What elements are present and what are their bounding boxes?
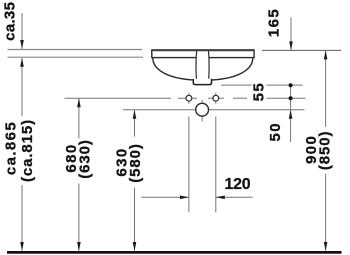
arrow down at floor for 900 bbox=[324, 242, 328, 251]
arrow up at line C for 630 bbox=[133, 110, 137, 119]
svg-text:(850): (850) bbox=[316, 131, 333, 171]
drain hole vertical centerline bbox=[201, 100, 203, 122]
basin drain foot fill bbox=[193, 79, 211, 85]
basin drain foot outline bbox=[193, 79, 211, 85]
left tap hole vertical centerline bbox=[188, 93, 190, 104]
basin rim top line over column bbox=[151, 49, 254, 51]
svg-text:55: 55 bbox=[251, 82, 268, 102]
dimension line 120 left bbox=[142, 196, 189, 198]
right tap hole crosshair horizontal bbox=[208, 97, 224, 99]
svg-text:(580): (580) bbox=[127, 143, 144, 183]
basin rim bbox=[152, 50, 254, 58]
arrow down at floor for 630 bbox=[133, 242, 137, 251]
arrow up at reference line for 900 bbox=[324, 50, 328, 59]
line A basin bottom level bbox=[221, 84, 252, 86]
svg-text:50: 50 bbox=[267, 122, 284, 142]
line C drain centerline bbox=[123, 109, 305, 111]
right tap hole vertical centerline bbox=[215, 93, 217, 104]
dimension line ca.865 bbox=[21, 58, 23, 116]
svg-text:(ca.815): (ca.815) bbox=[19, 119, 36, 182]
arrow down at floor for ca.865 bbox=[20, 242, 24, 251]
countertop bottom line left bbox=[8, 56, 144, 58]
basin overflow column fill bbox=[196, 51, 209, 80]
drain hole bbox=[196, 103, 209, 116]
dimension line 630 bbox=[134, 110, 136, 136]
basin overflow column right edge bbox=[208, 51, 211, 79]
reference top line right bbox=[262, 49, 341, 51]
dimension line 55-50 vertical bbox=[290, 85, 292, 109]
dot at line A bbox=[289, 83, 293, 87]
dimension line 165 bbox=[290, 17, 292, 49]
svg-text:120: 120 bbox=[225, 176, 251, 193]
countertop top line left bbox=[8, 49, 143, 51]
right tap hole bbox=[213, 95, 219, 101]
left tap hole crosshair horizontal bbox=[178, 97, 197, 99]
arrow up at line C for 50 bbox=[289, 110, 293, 119]
arrow right at left extension bbox=[180, 196, 189, 200]
dimension line 120 right bbox=[216, 196, 252, 198]
arrow up at line B for 680 bbox=[77, 98, 81, 107]
extension line left for 120 bbox=[188, 117, 190, 213]
arrow down at reference line for 165 bbox=[289, 41, 293, 50]
arrow down at floor for 680 bbox=[77, 242, 81, 251]
line B tap hole centerline left part bbox=[65, 97, 172, 99]
floor line bbox=[7, 251, 342, 254]
basin bowl bbox=[153, 58, 253, 80]
extension line right for 120 bbox=[215, 117, 217, 213]
svg-text:ca.35: ca.35 bbox=[1, 2, 18, 41]
arrow down at countertop top bbox=[20, 40, 24, 49]
dot at line B bbox=[289, 96, 293, 100]
left tap hole bbox=[186, 95, 192, 101]
svg-text:ca.865: ca.865 bbox=[3, 121, 20, 175]
line B tap hole centerline right part bbox=[233, 97, 247, 99]
arrow up at countertop bottom bbox=[20, 58, 24, 67]
svg-text:(630): (630) bbox=[76, 139, 93, 179]
arrow left at right extension bbox=[216, 196, 225, 200]
svg-text:165: 165 bbox=[266, 8, 283, 37]
dimension line 900 bbox=[325, 51, 327, 127]
dimension line 680 bbox=[78, 99, 80, 139]
basin overflow column left edge bbox=[195, 51, 198, 79]
dimension line ca.35 upper bbox=[21, 13, 23, 49]
